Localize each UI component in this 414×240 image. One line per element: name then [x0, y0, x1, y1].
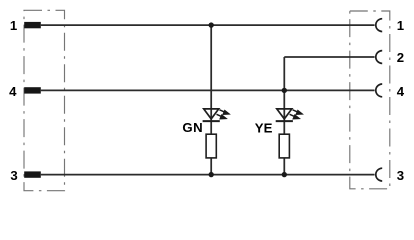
wire row pin2 (branch to right 2): [284, 56, 374, 58]
wire row pin3 (left 3 to right 3): [41, 174, 375, 176]
resistor R2 (YE branch): [279, 134, 289, 158]
LED GN emission arrow upper: [220, 110, 230, 115]
svg-text:4: 4: [9, 84, 17, 99]
right connector box (dashed enclosure): [350, 11, 390, 189]
junction dot node pin4/YE: [282, 88, 287, 93]
wire GN resistor to pin3 rail: [210, 158, 212, 175]
contact pin 1 (male, left): [24, 22, 41, 28]
svg-text:4: 4: [397, 84, 405, 99]
junction dot node pin3/GN: [209, 172, 214, 177]
wire row pin1 (left 1 to right 1): [41, 24, 375, 26]
contact pin 3 (male, left): [24, 171, 41, 177]
socket contact 3 (right): [376, 168, 382, 181]
wire row pin4 (left 4 to right 4): [41, 89, 375, 91]
socket contact 1 (right): [376, 19, 382, 32]
svg-text:1: 1: [10, 18, 17, 33]
LED GN cathode bar: [203, 120, 220, 122]
socket contact 4 (right): [376, 84, 382, 97]
LED YE (yellow) triangle: [277, 109, 292, 119]
LED YE emission arrow upper: [293, 110, 303, 115]
svg-text:3: 3: [397, 168, 404, 183]
wire GN branch vertical (node pin1 to resistor): [210, 25, 212, 134]
LED GN (green) triangle: [204, 109, 219, 119]
socket contact 2 (right): [376, 51, 382, 64]
svg-text:1: 1: [397, 18, 404, 33]
left connector box (dashed enclosure): [24, 10, 65, 190]
svg-text:GN: GN: [182, 120, 203, 135]
resistor R1 (GN branch): [206, 134, 216, 158]
svg-text:YE: YE: [255, 121, 273, 136]
wire YE branch vertical (pin2 corner down to resistor): [283, 57, 285, 134]
wire YE resistor to pin3 rail: [283, 158, 285, 175]
LED GN emission arrow lower: [217, 114, 227, 119]
contact pin 4 (male, left): [24, 87, 41, 93]
junction dot node pin3/YE: [282, 172, 287, 177]
junction dot node pin1/GN: [209, 22, 214, 27]
LED YE emission arrow lower: [290, 114, 300, 119]
LED YE cathode bar: [276, 120, 293, 122]
svg-text:3: 3: [10, 168, 17, 183]
svg-text:2: 2: [397, 50, 404, 65]
